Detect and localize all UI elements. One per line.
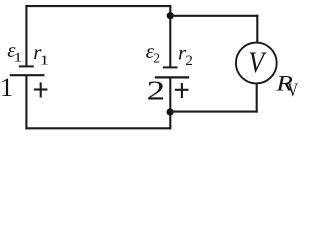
svg-text:2: 2 — [153, 50, 160, 65]
label plus terminal battery 1 — [34, 82, 48, 97]
battery 1 long plate (positive) — [10, 74, 45, 76]
wire top-right horizontal to voltmeter — [170, 15, 258, 17]
battery 2 short plate (negative) — [163, 66, 178, 68]
wire top-left horizontal — [25, 5, 171, 7]
wire battery 2 branch vertical upper — [169, 5, 171, 67]
wire battery 2 branch vertical lower — [169, 77, 171, 129]
battery 1 short plate (negative) — [19, 65, 34, 67]
wire right vertical lower — [256, 83, 258, 112]
node junction dot bottom — [167, 108, 174, 115]
voltmeter V circle — [236, 43, 277, 84]
svg-text:V: V — [288, 79, 299, 100]
wire bottom-right horizontal — [170, 111, 258, 113]
svg-text:V: V — [248, 47, 267, 80]
label plus terminal battery 2 — [175, 83, 189, 98]
svg-text:1: 1 — [0, 73, 13, 102]
wire left vertical lower — [25, 75, 27, 129]
svg-text:2: 2 — [147, 76, 165, 106]
wire bottom-left horizontal — [25, 127, 171, 129]
svg-text:2: 2 — [185, 53, 193, 69]
svg-text:1: 1 — [40, 52, 49, 68]
wire right vertical upper — [256, 15, 258, 44]
node junction dot top — [167, 12, 174, 19]
battery 2 long plate (positive) — [155, 76, 189, 78]
svg-text:1: 1 — [14, 50, 23, 64]
wire left vertical upper — [25, 5, 27, 66]
